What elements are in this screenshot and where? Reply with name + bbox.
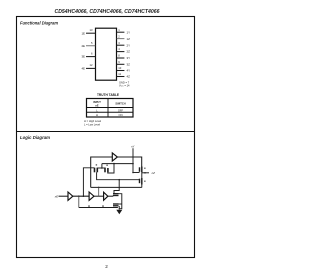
svg-text:Functional Diagram: Functional Diagram <box>20 21 58 26</box>
wire node C up to nY branch <box>101 164 103 168</box>
svg-text:8: 8 <box>118 54 120 58</box>
pin 12 number <box>90 63 93 67</box>
net label nY <box>131 144 136 148</box>
net label 1Z <box>127 37 131 41</box>
wire node A down to gate rail <box>79 196 118 207</box>
power pin note VCC = 14 <box>119 83 130 87</box>
svg-text:ON: ON <box>118 113 122 117</box>
svg-text:1: 1 <box>118 28 120 32</box>
pin 13 wire (left, 1E) <box>86 32 96 34</box>
wire U2C output to Q5 <box>108 195 113 197</box>
pin 8 number <box>118 54 120 58</box>
wire Q1 to Q2 <box>97 167 106 169</box>
svg-text:2Y: 2Y <box>127 43 131 47</box>
svg-text:VCC = 14: VCC = 14 <box>119 83 130 87</box>
net label 2Y <box>127 43 131 47</box>
wire U2B output to U2C input <box>94 195 104 197</box>
svg-text:1Z: 1Z <box>127 37 131 41</box>
wire Q5 drain to vertical bus <box>119 194 122 209</box>
page frame border <box>17 17 195 258</box>
svg-text:4E: 4E <box>81 67 85 71</box>
wire nZ lead <box>142 172 149 174</box>
net label 4E <box>81 67 85 71</box>
wire U2A output to U2B input <box>73 195 89 197</box>
pin 4 wire (right, 2Z) <box>117 51 125 53</box>
truth table header INPUT nE <box>93 100 101 107</box>
junction node G <box>118 179 120 181</box>
truth table row H ON <box>96 113 123 117</box>
svg-text:L = Low Level: L = Low Level <box>84 123 100 127</box>
note L low level <box>84 123 100 127</box>
pin 5 wire (left, 2E) <box>86 45 96 47</box>
truth table heading <box>97 93 119 97</box>
junction node B <box>83 195 85 197</box>
title: part numbers header <box>55 9 160 15</box>
svg-text:nY: nY <box>131 144 136 148</box>
svg-text:3: 3 <box>118 41 120 45</box>
transistor Q6 (pull-down lower) <box>113 204 122 206</box>
wire TG channel middle <box>141 172 143 178</box>
pin 6 number <box>91 52 93 56</box>
svg-text:13: 13 <box>90 28 93 32</box>
svg-text:OFF: OFF <box>118 108 124 112</box>
wire Q2 gate to PMOS gate rail <box>133 172 140 174</box>
pin 10 wire (right, 4Y) <box>117 70 125 72</box>
pin 2 number <box>118 34 120 38</box>
transistor Q8 (transmission gate NMOS) <box>140 178 142 185</box>
buffer U2B (second inverter) <box>89 192 94 200</box>
pin 13 number <box>90 28 93 32</box>
net label nE <box>55 194 58 198</box>
svg-text:4Y: 4Y <box>127 69 131 73</box>
svg-text:1E: 1E <box>81 31 85 35</box>
junction node F <box>132 172 134 174</box>
section divider rule <box>16 131 195 133</box>
pin 11 number <box>118 72 121 76</box>
svg-text:3E: 3E <box>81 55 85 59</box>
pin 3 wire (right, 2Y) <box>117 44 125 46</box>
wire nY vertical <box>132 148 134 172</box>
transistor Q7 (transmission gate PMOS) <box>140 167 142 173</box>
svg-text:Logic Diagram: Logic Diagram <box>20 135 50 140</box>
svg-text:11: 11 <box>118 72 121 76</box>
svg-text:2Z: 2Z <box>127 50 131 54</box>
junction node H <box>144 172 146 174</box>
pin 9 number <box>118 60 120 64</box>
label p (TG PMOS) <box>144 168 145 169</box>
wire p-well rail <box>91 186 142 188</box>
svg-text:3Z: 3Z <box>127 62 131 66</box>
svg-text:2E: 2E <box>81 44 85 48</box>
net label 3E <box>81 55 85 59</box>
net label 1E <box>81 31 85 35</box>
net label 1Y <box>127 30 131 34</box>
pin 3 number <box>118 41 120 45</box>
wire node B up to well switch <box>83 168 94 196</box>
stub rail to U2B <box>88 205 90 207</box>
svg-text:9: 9 <box>118 60 120 64</box>
buffer U2C (third inverter) <box>104 192 108 200</box>
junction node J <box>98 187 100 189</box>
svg-text:nE: nE <box>95 103 99 107</box>
svg-text:nZ: nZ <box>152 171 156 175</box>
transistor Q1 (well switch left) <box>95 164 98 172</box>
wire nY branch to Q1 gate <box>102 163 133 165</box>
buffer U2A (first inverter) <box>68 192 73 200</box>
svg-text:6: 6 <box>91 52 93 56</box>
IC package U1 body <box>96 28 117 80</box>
net label 4Z <box>127 75 131 79</box>
truth table row L OFF <box>96 108 123 112</box>
transistor Q5 (pull-down upper) <box>113 194 119 197</box>
wire node J down to inverter chain <box>98 187 100 196</box>
section heading: Logic Diagram <box>20 135 50 140</box>
transistor Q2 (well switch right) <box>105 165 108 173</box>
svg-text:CD54HC4066, CD74HC4066, CD74HC: CD54HC4066, CD74HC4066, CD74HCT4066 <box>55 9 160 15</box>
page number 2 <box>105 264 108 269</box>
net label 4Y <box>127 69 131 73</box>
wire TG bottom to p-well rail <box>141 185 143 188</box>
ground pin note GND = 7 <box>119 80 130 84</box>
junction node C <box>101 167 103 169</box>
label n (TG NMOS) <box>144 181 145 182</box>
svg-text:5: 5 <box>91 41 93 45</box>
svg-text:2: 2 <box>118 34 120 38</box>
pin 11 wire (right, 4Z) <box>117 76 125 78</box>
stub rail to U2C <box>102 205 104 207</box>
wire U2D output to transmission gate top <box>117 157 141 167</box>
svg-text:nE: nE <box>55 194 58 198</box>
pin 6 wire (left, 3E) <box>86 56 96 58</box>
net label nZ <box>152 171 156 175</box>
net label 2Z <box>127 50 131 54</box>
truth table header SWITCH <box>115 102 125 106</box>
net label 3Y <box>127 56 131 60</box>
net label 3Z <box>127 62 131 66</box>
wire Q1 gate down to NMOS gate rail <box>97 172 140 179</box>
pin 2 wire (right, 1Z) <box>117 38 125 40</box>
ground <box>116 206 122 214</box>
svg-text:H: H <box>96 113 98 117</box>
pin 1 number <box>118 28 120 32</box>
svg-text:H = High Level: H = High Level <box>84 119 102 123</box>
svg-text:12: 12 <box>90 63 93 67</box>
truth table grid <box>86 98 133 117</box>
pin 4 number <box>118 47 120 51</box>
svg-text:4: 4 <box>118 47 120 51</box>
pin 12 wire (left, 4E) <box>86 67 96 69</box>
wire nE input <box>59 195 69 197</box>
wire Q2 drain up to node D <box>108 164 114 173</box>
pin 5 number <box>91 41 93 45</box>
svg-text:TRUTH TABLE: TRUTH TABLE <box>97 93 119 97</box>
wire Q3 drain up <box>114 180 119 194</box>
net label 2E <box>81 44 85 48</box>
svg-text:1Y: 1Y <box>127 30 131 34</box>
wire top buffer input <box>91 157 113 187</box>
pin 10 number <box>118 66 121 70</box>
pin 1 wire (right, 1Y) <box>117 31 125 33</box>
svg-text:3Y: 3Y <box>127 56 131 60</box>
svg-text:SWITCH: SWITCH <box>115 102 125 106</box>
note H high level <box>84 119 102 123</box>
svg-text:10: 10 <box>118 66 121 70</box>
svg-text:2: 2 <box>105 264 108 269</box>
junction node D <box>113 163 115 165</box>
pin 8 wire (right, 3Y) <box>117 57 125 59</box>
pin 9 wire (right, 3Z) <box>117 63 125 65</box>
junction node E <box>132 163 134 165</box>
section heading: Functional Diagram <box>20 21 58 26</box>
svg-text:4Z: 4Z <box>127 75 131 79</box>
buffer U2D (top) <box>112 153 117 161</box>
junction node A <box>78 195 80 197</box>
